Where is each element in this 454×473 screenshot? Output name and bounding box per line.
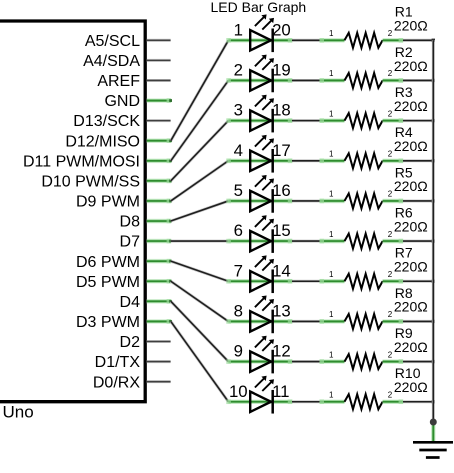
svg-text:1: 1 [329,69,334,78]
svg-text:D13/SCK: D13/SCK [73,113,140,130]
pin AREF [97,73,170,90]
svg-text:220Ω: 220Ω [394,18,428,34]
wire R4 to ground bus [403,159,435,162]
wire D5 PWM to LED row 8 [171,281,229,321]
svg-text:11: 11 [272,382,289,401]
ground symbol [413,442,453,457]
svg-text:220Ω: 220Ω [394,58,428,74]
wire R7 to ground bus [403,280,435,283]
svg-text:220Ω: 220Ω [394,218,428,234]
svg-text:1: 1 [329,310,334,319]
wire R10 to ground bus [403,400,435,403]
svg-text:D8: D8 [120,214,141,231]
svg-text:13: 13 [272,302,291,321]
pin D10 PWM/SS [41,173,172,190]
pin A5/SCL [85,33,171,50]
svg-text:7: 7 [234,261,243,280]
pin GND [104,93,172,110]
wire LED8 cathode to R8 [292,320,320,323]
svg-text:5: 5 [234,181,243,200]
wire LED6 cathode to R6 [292,240,320,243]
pin A4/SDA [83,53,171,70]
svg-text:1: 1 [329,270,334,279]
resistor R2 220ohm [319,44,427,88]
svg-text:1: 1 [329,109,334,118]
svg-text:AREF: AREF [97,73,140,90]
wire LED1 cathode to R1 [292,39,320,42]
pin D1/TX [95,354,171,371]
svg-text:Uno: Uno [3,403,34,422]
wire R1 to ground bus [403,39,435,42]
svg-text:2: 2 [388,350,393,359]
svg-text:6: 6 [234,221,243,240]
LED D5 row 5 [226,175,292,213]
svg-text:9: 9 [234,342,243,361]
svg-text:1: 1 [329,390,334,399]
svg-text:D11 PWM/MOSI: D11 PWM/MOSI [23,153,140,170]
svg-text:220Ω: 220Ω [394,299,428,315]
LED D4 row 4 [226,135,292,173]
LED D7 row 7 [226,255,292,293]
wire junction to ground [431,422,436,441]
svg-text:2: 2 [234,61,243,80]
svg-text:2: 2 [388,230,393,239]
LED D9 row 9 [226,336,292,374]
svg-text:1: 1 [329,149,334,158]
wire LED5 cathode to R5 [292,199,320,202]
wire D3 PWM to LED row 10 [171,321,229,401]
wire R3 to ground bus [403,119,435,122]
wire D11 PWM/MOSI to LED row 2 [171,80,229,160]
pin D13/SCK [73,113,170,130]
svg-text:D3 PWM: D3 PWM [76,314,140,331]
svg-text:14: 14 [272,261,291,280]
svg-text:D1/TX: D1/TX [95,354,141,371]
svg-text:D2: D2 [120,334,141,351]
svg-text:220Ω: 220Ω [394,379,428,395]
svg-text:1: 1 [329,29,334,38]
LED D2 row 2 [226,55,292,93]
svg-text:20: 20 [272,20,291,39]
wire LED4 cathode to R4 [292,159,320,162]
resistor R10 220ohm [319,365,427,409]
svg-text:2: 2 [388,390,393,399]
wire D4 to LED row 9 [171,301,229,361]
wire D12/MISO to LED row 1 [171,40,229,140]
svg-text:220Ω: 220Ω [394,259,428,275]
pin D8 [120,214,172,231]
wire LED2 cathode to R2 [292,79,320,82]
svg-text:2: 2 [388,29,393,38]
svg-text:220Ω: 220Ω [394,339,428,355]
resistor R5 220ohm [319,164,427,208]
resistor R7 220ohm [319,245,427,289]
svg-text:220Ω: 220Ω [394,98,428,114]
LED D10 row 10 [226,376,292,414]
pin D9 PWM [76,194,172,211]
svg-text:4: 4 [234,141,243,160]
svg-text:10: 10 [229,382,248,401]
pin D2 [120,334,171,351]
wire D7 to LED row 6 [171,240,229,243]
resistor R9 220ohm [319,325,427,369]
svg-text:1: 1 [329,230,334,239]
LED D8 row 8 [226,296,292,334]
svg-text:D5 PWM: D5 PWM [76,274,140,291]
svg-text:D6 PWM: D6 PWM [76,254,140,271]
svg-text:2: 2 [388,190,393,199]
resistor R3 220ohm [319,84,427,128]
svg-text:18: 18 [272,101,291,120]
svg-text:2: 2 [388,109,393,118]
Arduino Uno box U1 [0,21,145,402]
resistor R1 220ohm [319,4,427,48]
svg-text:D4: D4 [120,294,141,311]
wire LED7 cathode to R7 [292,280,320,283]
svg-text:17: 17 [272,141,291,160]
pin D11 PWM/MOSI [23,153,172,170]
wire LED3 cathode to R3 [292,119,320,122]
svg-text:D0/RX: D0/RX [93,374,140,391]
wire D6 PWM to LED row 7 [171,261,229,281]
LED D3 row 3 [226,95,292,133]
svg-text:LED Bar Graph: LED Bar Graph [211,0,307,15]
LED D6 row 6 [226,215,292,253]
svg-text:16: 16 [272,181,291,200]
svg-text:2: 2 [388,310,393,319]
wire R9 to ground bus [403,360,435,363]
svg-text:220Ω: 220Ω [394,178,428,194]
pin D12/MISO [65,133,172,150]
pin D5 PWM [76,274,172,291]
svg-text:2: 2 [388,149,393,158]
wire D9 PWM to LED row 4 [171,161,229,201]
wire R5 to ground bus [403,199,435,202]
wire R8 to ground bus [403,320,435,323]
pin D0/RX [93,374,171,391]
svg-text:2: 2 [388,69,393,78]
wire R2 to ground bus [403,79,435,82]
wire D10 PWM/SS to LED row 3 [171,121,229,181]
resistor R8 220ohm [319,285,427,329]
svg-text:220Ω: 220Ω [394,138,428,154]
wire LED10 cathode to R10 [292,400,320,403]
svg-text:19: 19 [272,61,291,80]
pin D7 [120,234,172,251]
svg-text:A4/SDA: A4/SDA [83,53,140,70]
svg-text:1: 1 [234,20,243,39]
ground bus wire [432,40,435,422]
resistor R6 220ohm [319,205,427,249]
junction node [430,419,437,426]
pin D3 PWM [76,314,172,331]
wire R6 to ground bus [403,239,435,242]
svg-text:A5/SCL: A5/SCL [85,33,140,50]
pin D6 PWM [76,254,172,271]
svg-text:2: 2 [388,270,393,279]
svg-text:15: 15 [272,221,291,240]
svg-text:D9 PWM: D9 PWM [76,194,140,211]
svg-text:3: 3 [234,101,243,120]
svg-text:1: 1 [329,350,334,359]
svg-text:8: 8 [234,302,243,321]
svg-text:GND: GND [104,93,140,110]
svg-text:12: 12 [272,342,291,361]
resistor R4 220ohm [319,124,427,168]
wire LED9 cathode to R9 [292,360,320,363]
svg-text:D10 PWM/SS: D10 PWM/SS [41,173,140,190]
svg-text:1: 1 [329,190,334,199]
pin D4 [120,294,172,311]
wire D8 to LED row 5 [171,201,229,221]
svg-text:D12/MISO: D12/MISO [65,133,140,150]
svg-text:D7: D7 [120,234,141,251]
LED D1 row 1 [226,14,292,52]
